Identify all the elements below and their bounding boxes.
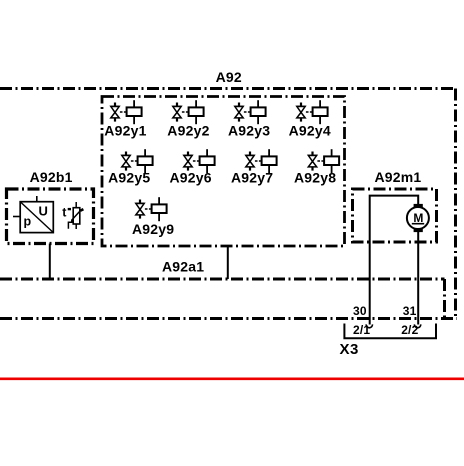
motor brush top bbox=[414, 204, 423, 208]
motor M1 wires bbox=[370, 196, 419, 325]
svg-text:A92y6: A92y6 bbox=[170, 170, 212, 186]
connector X3 bracket bbox=[344, 324, 436, 339]
svg-text:A92: A92 bbox=[216, 69, 242, 85]
red separator line bbox=[0, 377, 464, 380]
pressure transducer B bbox=[13, 196, 53, 233]
A92 box top edge bbox=[0, 87, 456, 90]
A92 box right edge bbox=[454, 89, 457, 320]
valve A92y3 bbox=[235, 100, 266, 124]
A92 box bottom edge bbox=[0, 278, 445, 281]
motor M1 circle bbox=[407, 207, 429, 229]
A92b1 box bbox=[7, 189, 94, 244]
wire from A92b1 down bbox=[49, 244, 51, 280]
motor underline bbox=[412, 223, 424, 225]
motor brush bottom bbox=[414, 229, 423, 233]
svg-text:A92y5: A92y5 bbox=[108, 170, 150, 186]
svg-text:X3: X3 bbox=[340, 341, 359, 358]
valve A92y2 bbox=[173, 100, 204, 124]
valve A92y5 bbox=[122, 149, 153, 173]
valve A92y1 bbox=[111, 100, 142, 124]
socket 2/2 bbox=[414, 324, 420, 327]
thermistor R bbox=[68, 202, 83, 229]
svg-text:2/2: 2/2 bbox=[401, 323, 418, 337]
A92 box bottom-right notch vertical bbox=[443, 279, 446, 318]
svg-text:2/1: 2/1 bbox=[353, 323, 370, 337]
lower boundary line bbox=[0, 317, 457, 320]
svg-text:31: 31 bbox=[403, 304, 417, 318]
valve A92y7 bbox=[246, 149, 277, 173]
svg-text:30: 30 bbox=[353, 304, 367, 318]
wire from valve box down bbox=[227, 246, 229, 279]
svg-text:p: p bbox=[24, 215, 32, 229]
svg-text:A92y9: A92y9 bbox=[132, 221, 174, 237]
svg-text:A92y1: A92y1 bbox=[104, 123, 146, 139]
valve A92y9 bbox=[136, 197, 167, 221]
svg-text:A92y3: A92y3 bbox=[228, 123, 270, 139]
valve A92y6 bbox=[184, 149, 215, 173]
svg-text:A92b1: A92b1 bbox=[30, 169, 73, 185]
inner valve group box bbox=[102, 97, 345, 247]
A92m1 box bbox=[353, 189, 437, 242]
socket 2/1 bbox=[366, 324, 372, 327]
svg-text:U: U bbox=[39, 204, 48, 219]
svg-text:M: M bbox=[413, 211, 423, 225]
valve A92y4 bbox=[297, 100, 328, 124]
svg-text:A92y7: A92y7 bbox=[231, 170, 273, 186]
svg-text:A92a1: A92a1 bbox=[162, 259, 204, 275]
svg-text:A92y8: A92y8 bbox=[294, 170, 336, 186]
svg-text:A92y2: A92y2 bbox=[167, 123, 209, 139]
svg-text:A92m1: A92m1 bbox=[375, 169, 422, 185]
valve A92y8 bbox=[308, 149, 339, 173]
svg-text:A92y4: A92y4 bbox=[289, 123, 331, 139]
